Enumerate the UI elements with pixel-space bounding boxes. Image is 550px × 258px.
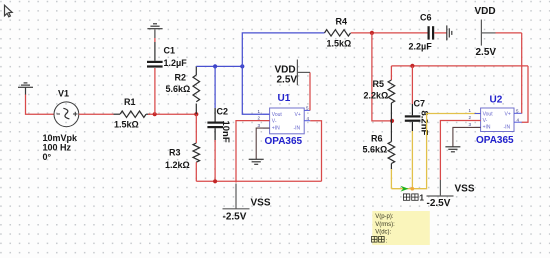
- wire: input ground to V1: [26, 95, 54, 115]
- wire: junction down to R5/R6 node: [372, 33, 392, 121]
- resistor R5: [388, 66, 395, 121]
- node (R2/R3 junction): [194, 112, 198, 116]
- wire: node A (R5 top / C7 top / U2 out): [391, 65, 528, 67]
- node (C2 on rail): [213, 179, 217, 183]
- svg-text:-2.5V: -2.5V: [223, 212, 247, 223]
- VDD symbol U1: [297, 60, 310, 86]
- ground (above C1): [147, 24, 162, 29]
- svg-text:-IN: -IN: [294, 126, 301, 132]
- svg-text:VSS: VSS: [251, 198, 271, 209]
- svg-text:2.5V: 2.5V: [277, 75, 298, 86]
- wire: U2 pin4 (out) feedback: [522, 66, 528, 122]
- node (R4/C6/R5 junction): [370, 31, 374, 35]
- svg-text:V1: V1: [58, 89, 69, 99]
- probe arrow: [400, 186, 408, 192]
- svg-text:V(rms):: V(rms):: [375, 222, 395, 228]
- wire: blue down to U1 pin1: [242, 66, 269, 114]
- wire: U2 pin2 to VSS: [440, 121, 480, 181]
- wire: R4 to C6: [351, 32, 428, 34]
- svg-text:U1: U1: [278, 93, 291, 104]
- svg-text:1: 1: [420, 194, 425, 203]
- resistor R2: [193, 66, 200, 114]
- node (R5/R6 junction): [390, 119, 394, 123]
- svg-text:VSS: VSS: [455, 184, 475, 195]
- ground (U1 +IN): [249, 159, 264, 164]
- wire: R1 to node: [148, 113, 196, 115]
- svg-text:R6: R6: [371, 134, 383, 144]
- wire: bottom rail (R3/C2/U1 out): [196, 180, 321, 182]
- wire: U1 pin2 to VSS: [236, 121, 270, 183]
- resistor R3: [193, 114, 200, 181]
- wire: node A down to C7: [411, 66, 413, 104]
- svg-text:R3: R3: [169, 148, 181, 158]
- resistor R6: [388, 121, 395, 169]
- svg-text:-2.5V: -2.5V: [427, 198, 451, 209]
- wire: U2 pin5 to VDD: [521, 33, 523, 113]
- svg-text:+IN: +IN: [272, 126, 280, 132]
- wire: C1 branch: [154, 68, 156, 114]
- VSS symbol U2: [427, 180, 454, 196]
- svg-text:Vout: Vout: [272, 112, 283, 118]
- wire: blue up and to R4: [242, 33, 324, 67]
- svg-text:0°: 0°: [43, 152, 52, 162]
- node (C2 branch, blue): [213, 64, 217, 68]
- svg-text:-IN: -IN: [504, 125, 511, 131]
- probe readout box: [372, 211, 430, 245]
- ground (U2 +IN): [445, 147, 460, 152]
- wire: blue node R2 top: [196, 65, 242, 67]
- svg-text:V+: V+: [295, 112, 301, 118]
- capacitor C2: [207, 108, 223, 181]
- node (R1/C1 junction): [153, 112, 157, 116]
- svg-text:Vout: Vout: [483, 112, 494, 118]
- svg-text:2.5V: 2.5V: [476, 47, 497, 58]
- svg-text:OPA365: OPA365: [265, 136, 303, 147]
- VDD symbol U2 (top right): [481, 20, 495, 46]
- CJK 频率: simulated: [372, 237, 385, 243]
- svg-text:V-: V-: [272, 119, 277, 125]
- svg-text:2.2kΩ: 2.2kΩ: [364, 91, 389, 101]
- wire: V1 to R1: [79, 113, 114, 115]
- svg-text:5.6kΩ: 5.6kΩ: [363, 145, 388, 155]
- svg-text:VDD: VDD: [475, 6, 496, 17]
- svg-text:R5: R5: [373, 79, 385, 89]
- svg-text:C1: C1: [164, 46, 176, 56]
- svg-text:5.6kΩ: 5.6kΩ: [166, 84, 191, 94]
- ground (rotated, right of C6): [447, 25, 452, 40]
- probe label (CJK simulated): [403, 194, 418, 200]
- svg-text:10mVpk: 10mVpk: [43, 133, 79, 143]
- svg-text:V+: V+: [505, 112, 511, 118]
- svg-text:8.2nF: 8.2nF: [419, 111, 430, 136]
- mouse cursor: [5, 5, 13, 17]
- wire: U1 pin4 (out) to rail: [310, 121, 321, 182]
- capacitor C7: [405, 104, 421, 131]
- capacitor C6: [428, 26, 447, 39]
- svg-text:1.2kΩ: 1.2kΩ: [165, 160, 190, 170]
- svg-text:C6: C6: [420, 13, 432, 23]
- node (blue T junction): [240, 64, 244, 68]
- svg-text:10nF: 10nF: [220, 121, 231, 143]
- svg-text:R1: R1: [124, 97, 136, 107]
- ground (input, above V1 wire): [18, 83, 33, 95]
- resistor R1: [114, 111, 151, 117]
- VSS symbol U1: [223, 184, 250, 209]
- resistor R4: [325, 30, 351, 36]
- svg-text:V(dc):: V(dc):: [375, 230, 391, 236]
- svg-text:V(p-p):: V(p-p):: [375, 214, 394, 220]
- probe dot: [411, 187, 415, 191]
- source V1: [54, 102, 79, 127]
- svg-text:U2: U2: [490, 95, 503, 106]
- node (C7 branch): [410, 64, 414, 68]
- wire: U2 pin3 to ground: [453, 127, 481, 146]
- svg-text:2.2µF: 2.2µF: [409, 42, 433, 52]
- svg-text:1.2µF: 1.2µF: [164, 58, 188, 68]
- svg-text:1.5kΩ: 1.5kΩ: [114, 120, 139, 130]
- wire: blue C2 branch down: [214, 66, 216, 108]
- capacitor C1: [147, 30, 163, 68]
- svg-text:R4: R4: [336, 17, 348, 27]
- wire: yellow probe net: [411, 131, 413, 189]
- svg-text:OPA365: OPA365: [476, 135, 514, 146]
- svg-text:1.5kΩ: 1.5kΩ: [327, 39, 352, 49]
- op-amp U2: [469, 108, 522, 132]
- svg-text:100 Hz: 100 Hz: [43, 143, 72, 153]
- wire: U1 pin3 to ground: [256, 128, 269, 159]
- svg-text:C2: C2: [217, 107, 229, 117]
- svg-text:C7: C7: [414, 99, 426, 109]
- svg-text:+IN: +IN: [483, 125, 491, 131]
- svg-text:V-: V-: [483, 118, 488, 124]
- op-amp U1: [258, 106, 311, 134]
- wire: U1 pin5 to VDD: [309, 72, 311, 110]
- svg-text:R2: R2: [175, 73, 187, 83]
